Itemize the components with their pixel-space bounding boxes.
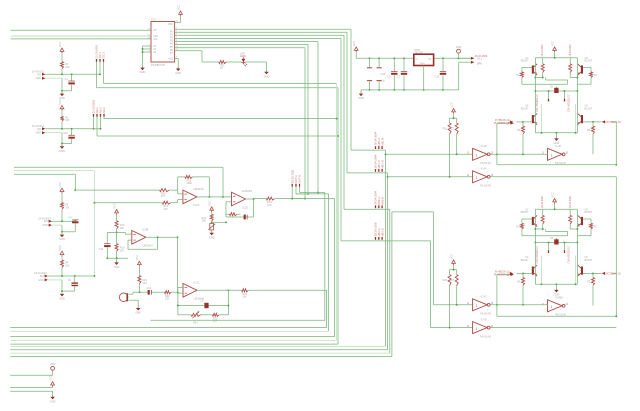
wire IC4B gnd rail	[107, 257, 128, 259]
VCC symbol ch2	[58, 99, 64, 111]
microphone M1	[119, 293, 128, 302]
wire net LB vertical	[93, 171, 95, 276]
wire IC1C left column	[177, 288, 179, 315]
junction IC1C in	[177, 292, 179, 294]
wire IC4C out to IC4B2	[491, 304, 548, 306]
wire HB2 cL stub	[548, 243, 550, 251]
resistor R31 HB1	[592, 126, 595, 134]
svg-text:VCC: VCC	[550, 41, 554, 47]
wire IC1C fb mid	[178, 305, 229, 307]
wire VDD pin	[175, 21, 181, 23]
svg-text:GND: GND	[42, 224, 48, 227]
wire IC1C fb right	[227, 290, 229, 315]
wire HB1 cap stub	[555, 87, 557, 89]
wire R11 to LED1	[226, 61, 241, 63]
junction ch3 node-cap	[74, 220, 76, 222]
op-amp IC1C	[183, 281, 204, 301]
svg-text:AN-3: AN-3	[102, 107, 106, 114]
svg-text:BC557: BC557	[521, 211, 529, 214]
wire HB1 Rin2 stub	[592, 122, 594, 126]
label pin HB1 cR	[564, 99, 566, 102]
junction ch3 node	[61, 220, 63, 222]
wire HB1 P1 drop	[521, 78, 523, 85]
junction HB1 leftcol	[534, 90, 536, 92]
wire net AN2 horizontal	[104, 82, 337, 84]
junction IC4B in node	[116, 231, 118, 233]
wire C6 bottom	[393, 75, 395, 90]
inverter IC4C	[467, 295, 494, 316]
junction groupM-1	[291, 198, 293, 200]
connector pin GND ch1	[42, 77, 45, 80]
svg-text:GND: GND	[59, 149, 65, 153]
VCC symbol bridge HB1	[550, 41, 556, 53]
junction HB2 left base	[522, 272, 524, 274]
label pin groupB-3	[100, 114, 102, 117]
wire IC1D in2 stub	[226, 201, 232, 203]
wire HB1 left collector	[522, 67, 532, 69]
resistor R4	[61, 260, 64, 267]
svg-text:IC1D: IC1D	[242, 205, 248, 209]
wire R20 out	[171, 291, 178, 293]
wire bus B5	[10, 339, 336, 341]
ground PSU	[358, 92, 364, 100]
wire groupB stub1	[93, 117, 95, 129]
wire C3 top	[369, 58, 371, 67]
wire net AN1 horizontal	[97, 87, 339, 89]
wire VCC bias stub	[211, 212, 213, 214]
junction HB2 rightcol	[576, 228, 578, 230]
junction IC4E out	[496, 153, 498, 155]
wire HB1 cR stub	[564, 91, 566, 99]
junction pullup1	[453, 117, 455, 119]
wire bus B9 vertical	[389, 209, 391, 353]
wire bus B3	[10, 330, 328, 332]
svg-text:10u: 10u	[381, 80, 386, 83]
junction ch1 node	[61, 73, 63, 75]
wire bus B8 vertical	[387, 173, 389, 350]
wire HB1 Rb2 drop	[569, 73, 571, 78]
svg-text:VCC: VCC	[48, 375, 52, 381]
svg-text:IN3: IN3	[44, 220, 48, 223]
VCC symbol bias	[208, 200, 214, 212]
junction g1 in	[385, 153, 387, 155]
wire VCC to R13	[116, 215, 118, 221]
wire node to C10	[71, 129, 73, 136]
wire C5 to gnd rail	[74, 286, 76, 291]
svg-text:10K: 10K	[65, 119, 70, 122]
svg-text:LED1: LED1	[240, 54, 247, 58]
wire C12 bottom	[442, 75, 444, 90]
wire HB2 left collector	[522, 218, 532, 220]
voltage regulator VR1 body	[414, 54, 434, 65]
svg-text:78L05Z: 78L05Z	[414, 52, 423, 55]
wire gnd wrap	[458, 62, 460, 90]
LED LED1	[242, 57, 248, 66]
wire jog R12	[177, 200, 179, 203]
wire VSS drop	[177, 58, 179, 68]
wire IC4C out vertical	[496, 275, 498, 317]
resistor R25	[212, 313, 219, 316]
capacitor C8 HB2	[554, 239, 558, 244]
junction mid nets	[304, 198, 306, 200]
junction pullup2 R	[456, 304, 458, 306]
junction C7 gnd	[403, 89, 405, 91]
wire bridge HB2 right column	[576, 209, 578, 242]
wire net LA	[14, 166, 223, 168]
wire g3 input drop	[433, 212, 435, 305]
wire HB2 Rin2 drop	[592, 285, 594, 305]
wire pullup1 R stub	[456, 118, 458, 123]
svg-text:IN1: IN1	[37, 73, 41, 76]
svg-text:GND: GND	[59, 297, 65, 301]
wire HB2 left col low	[534, 243, 536, 285]
wire LED ground drop	[266, 62, 268, 71]
label pin groupM-1	[291, 184, 293, 187]
wire HB1 right col low	[576, 91, 578, 133]
wire HB1 left base	[516, 121, 531, 123]
svg-text:22-23-0031: 22-23-0031	[95, 44, 99, 58]
wire bus B9	[10, 352, 390, 354]
svg-text:BC557: BC557	[585, 60, 593, 63]
capacitor C1	[68, 81, 74, 84]
wire R17 right	[237, 213, 241, 215]
wire VCC to R21	[138, 266, 140, 275]
label pin groupM-3	[299, 184, 301, 187]
resistor R15	[160, 189, 169, 192]
junction A-pins	[142, 48, 144, 50]
wire pullup1 R drop	[456, 134, 458, 154]
ground bridge HB2	[554, 288, 560, 296]
svg-text:GND: GND	[358, 96, 364, 100]
wire ch3 gnd rail	[62, 231, 75, 233]
junction HB1 emitter	[575, 132, 577, 134]
resistor R31 HB2	[592, 278, 595, 286]
wire HB2 Rb1 link	[535, 228, 542, 230]
connector pin GND ch4	[45, 278, 48, 281]
junction HB2 emitter	[575, 283, 577, 285]
wire HB2 right col low	[576, 243, 578, 285]
wire group3 feed	[344, 208, 390, 210]
junction ch2 gnd	[61, 143, 63, 145]
svg-text:IN2: IN2	[37, 128, 41, 131]
svg-text:VCC: VCC	[112, 203, 116, 209]
label pin groupA-1	[96, 59, 98, 62]
svg-text:10K: 10K	[65, 264, 70, 267]
wire HB1 cross stub	[545, 78, 547, 81]
svg-text:IC4D: IC4D	[481, 317, 487, 321]
capacitor C12	[440, 71, 446, 74]
wire net P1 vertical	[346, 32, 348, 173]
wire groupA stub1	[96, 62, 98, 88]
svg-text:R26: R26	[443, 279, 448, 282]
wire IC1D out to R22	[254, 198, 267, 200]
wire C6 top	[393, 58, 395, 71]
resistor R11	[219, 61, 226, 64]
wire C4P bottom	[378, 81, 380, 90]
wire HB1 P2 stub	[590, 68, 592, 72]
svg-text:10K: 10K	[267, 204, 272, 207]
wire IC4E out to IC4F	[491, 153, 548, 155]
svg-text:BC547: BC547	[521, 107, 529, 110]
wire C4P top	[378, 58, 380, 67]
svg-text:VCC: VCC	[449, 254, 453, 260]
wire group2 feed	[347, 172, 388, 174]
resistor R23	[242, 289, 249, 292]
svg-text:10K: 10K	[165, 298, 170, 301]
transistor U7 HB2 PNP	[532, 215, 537, 226]
op-amp IC1D	[232, 189, 253, 209]
svg-text:10K: 10K	[120, 227, 125, 230]
resistor pullup1 left	[448, 123, 451, 134]
wire to out pin1	[459, 57, 471, 59]
wire bus B10 vertical	[391, 212, 393, 357]
wire HB1 Rin1 drop	[522, 134, 524, 154]
wire HB2 P1 drop	[521, 229, 523, 236]
svg-text:28-20-0081: 28-20-0081	[541, 195, 544, 208]
wire VCC stub pullup2	[453, 265, 455, 270]
wire bridge HB2 centre rail	[535, 242, 577, 244]
resistor Rb1 HB2	[541, 215, 544, 224]
wire C4 to gnd rail	[74, 224, 76, 232]
wire C1 to gnd rail	[71, 85, 73, 91]
junction LB	[93, 275, 95, 277]
svg-text:22-23-0031: 22-23-0031	[92, 99, 96, 113]
wire net AN3 horizontal	[104, 118, 335, 120]
ground ch2	[59, 145, 65, 153]
wire HB1 inner L	[541, 104, 543, 133]
junction A-pins	[142, 51, 144, 53]
capacitor C7	[401, 71, 407, 74]
wire HB2 P2 drop	[590, 229, 592, 236]
wire HB2 right low	[577, 235, 591, 237]
svg-text:IN4: IN4	[40, 275, 44, 278]
svg-text:SCL: SCL	[153, 38, 158, 41]
wire VCC to R2	[61, 111, 63, 117]
junction ch4 gnd	[61, 290, 63, 292]
junction HB1 emitter	[555, 132, 557, 134]
wire into IC4B in1	[126, 233, 132, 235]
wire HB2 left base	[516, 272, 531, 274]
wire HB2 P2 stub	[590, 219, 592, 223]
wire HB1 right base ext	[612, 121, 616, 123]
trimmer R24 arrow	[193, 311, 200, 318]
wire IC4B out drop	[177, 237, 179, 292]
wire VCC to R3	[61, 193, 63, 202]
junction pullup1 L	[449, 176, 451, 178]
resistor R2	[61, 116, 64, 120]
wire pullup2 R drop	[456, 286, 458, 305]
wire group4 feed	[341, 240, 431, 242]
wire IC1C in2 stub	[178, 292, 183, 294]
wire bridge HB1 top rail	[535, 57, 577, 59]
wire R2 to node	[61, 121, 63, 129]
wire node left	[107, 231, 116, 233]
wire net P4 drop	[324, 193, 326, 321]
wire net P6 vertical	[304, 48, 306, 199]
wire net OUT1 horizontal	[275, 198, 335, 200]
wire bus B7 vertical	[385, 150, 387, 346]
ground ch1	[59, 92, 65, 100]
svg-text:PI-HBD05-1D: PI-HBD05-1D	[495, 119, 510, 122]
wire HB2 cross up	[567, 232, 569, 236]
wire regulator gnd pin	[423, 66, 425, 90]
wire bus B1	[151, 319, 325, 321]
wire net P4 vertical	[317, 42, 319, 193]
VCC symbol ch1	[58, 42, 64, 54]
wire HB1 Rin1 stub	[522, 122, 524, 126]
label pin groupB-4	[103, 114, 105, 117]
junction HB2 right base	[592, 272, 594, 274]
svg-text:28-20-0081: 28-20-0081	[569, 44, 572, 57]
resistor P1 HB2	[520, 223, 523, 229]
wire net OUT1 drop	[334, 199, 336, 337]
flag HB1 right	[602, 120, 605, 123]
junction HB2 leftcol	[534, 228, 536, 230]
svg-text:VCC: VCC	[208, 200, 212, 206]
wire pullup1 L drop	[449, 134, 451, 177]
svg-text:I2C-1: I2C-1	[98, 51, 102, 58]
wire mic top stub	[128, 293, 133, 295]
transistor U5 HB1 NPN	[578, 113, 583, 124]
svg-text:VCC: VCC	[550, 192, 554, 198]
label pin group1-1	[375, 146, 377, 149]
resistor P2 HB1	[590, 72, 593, 78]
svg-text:10K: 10K	[65, 66, 70, 69]
ground ch3	[59, 233, 65, 241]
junction net IN1 end	[99, 73, 101, 75]
svg-text:C4P: C4P	[381, 73, 386, 76]
capacitor C4	[72, 220, 78, 223]
wire bus B6	[10, 343, 338, 345]
svg-text:GND: GND	[420, 63, 425, 65]
wire HB1 inner R	[575, 104, 577, 133]
wire psu rail left	[356, 57, 414, 59]
junction ch4 cap	[74, 275, 76, 277]
label pin HB1 cL	[548, 99, 550, 102]
svg-text:VI: VI	[415, 59, 418, 61]
junction ch1 gnd	[61, 90, 63, 92]
resistor R21	[138, 276, 141, 284]
wire into IC1A in1	[178, 193, 183, 195]
wire pullup2 L drop	[449, 286, 451, 328]
wire HB1 cross low	[522, 83, 568, 85]
wire gnd pin ch1	[45, 77, 62, 79]
wire groupM stub3	[299, 187, 301, 193]
transistor U4 HB2 NPN	[532, 265, 537, 276]
wire pullup1 L stub	[449, 118, 451, 123]
wire R18 to rail	[116, 251, 118, 258]
wire net P5 drop	[327, 194, 329, 331]
ground bottom	[50, 395, 56, 403]
wire gate IC4E input	[386, 153, 473, 155]
wire HB2 cap stub	[555, 238, 557, 240]
wire C12 top	[442, 58, 444, 71]
wire bridge HB1 centre rail	[535, 90, 577, 92]
junction IC4C out	[496, 304, 498, 306]
wire ch2 gnd rail	[62, 143, 72, 145]
wire net IN4	[48, 275, 95, 277]
wire net SDA	[11, 35, 152, 37]
wire bus B7	[10, 345, 385, 347]
junction pullup2	[453, 269, 455, 271]
VCC symbol PSU	[352, 41, 358, 53]
wire node to C5	[74, 276, 76, 282]
junction HB1 centre	[564, 90, 566, 92]
resistor Rb2 HB2	[569, 215, 572, 224]
wire net IN2	[45, 128, 100, 130]
wire HB2 inner R	[575, 256, 577, 285]
svg-text:GND: GND	[38, 279, 44, 282]
svg-text:OUT-A: OUT-A	[294, 175, 298, 183]
junction HB1 rightcol	[576, 90, 578, 92]
svg-text:VDD: VDD	[168, 23, 173, 26]
wire net IN1	[45, 73, 100, 75]
resistor pullup1 right	[455, 123, 458, 134]
wire gnd pin ch2	[45, 132, 62, 134]
wire mic jog	[132, 292, 134, 294]
wire loop bridge1 bottom	[497, 164, 616, 166]
svg-text:R27: R27	[450, 279, 455, 282]
svg-text:I2C-2: I2C-2	[102, 51, 106, 58]
svg-text:VCC: VCC	[58, 245, 62, 251]
ground at IC2 VSS	[175, 67, 181, 75]
junction HB1 b1	[542, 77, 544, 79]
ground for A0-A2	[140, 66, 146, 74]
label pin group2-3	[381, 169, 383, 172]
ground mic	[135, 307, 141, 315]
svg-text:GND: GND	[554, 293, 560, 297]
junction IC4B rail	[106, 257, 108, 259]
wire into IC1A in2	[178, 199, 183, 201]
svg-text:1K: 1K	[220, 67, 223, 70]
svg-text:4K7: 4K7	[164, 208, 169, 211]
junction ch3 top	[74, 189, 76, 191]
wire pullup bar pullup1	[450, 117, 457, 119]
wire HB1 Rb1 stub	[542, 58, 544, 64]
label pin HB2 cR	[564, 250, 566, 253]
wire node to C4	[74, 220, 76, 221]
wire pin A0	[143, 45, 152, 47]
connector pin IN2	[42, 127, 45, 130]
wire bridge HB2 left column	[534, 209, 536, 242]
svg-text:1: 1	[476, 176, 478, 180]
wire net P7 vertical	[201, 51, 203, 62]
svg-text:IC1C: IC1C	[194, 281, 200, 285]
svg-text:VDD: VDD	[50, 362, 56, 366]
wire node to R18	[116, 232, 118, 243]
wire to out pin2	[459, 61, 471, 63]
wire VCC to R1	[61, 53, 63, 62]
wire IC1D in2 drop	[225, 202, 227, 217]
inverter IC4D	[467, 317, 494, 338]
resistor R30 HB1	[522, 126, 525, 134]
junction IC4B out	[177, 236, 179, 238]
wire HB1 cross up	[567, 80, 569, 84]
svg-text:LM324N: LM324N	[142, 244, 152, 248]
svg-text:C13: C13	[146, 287, 151, 290]
wire psu gnd stub	[360, 90, 362, 93]
capacitor C3 plate1	[367, 67, 372, 69]
wire IC1A out to IC1D	[197, 196, 232, 198]
resistor R14	[210, 214, 213, 221]
svg-text:BC547: BC547	[521, 259, 529, 262]
wire A0-A2 to ground	[142, 46, 144, 67]
resistor P2 HB2	[590, 223, 593, 229]
wire pullup2 L stub	[449, 270, 451, 275]
junction IC1C fb mid	[177, 305, 179, 307]
junction ch2 node	[61, 128, 63, 130]
capacitor C8 HB1	[554, 88, 558, 93]
